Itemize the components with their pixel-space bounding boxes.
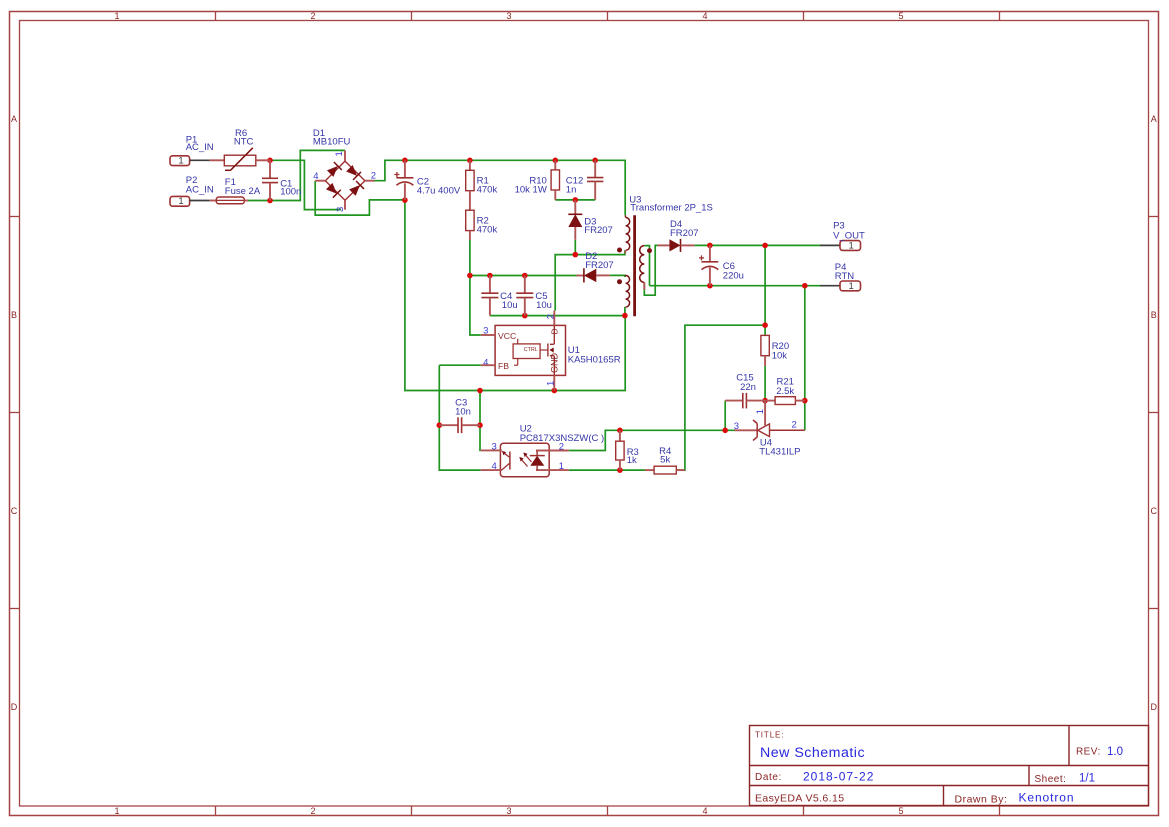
resistor R1: [469, 160, 471, 170]
shunt regulator U4 TL431: [735, 401, 805, 441]
svg-text:220u: 220u: [723, 270, 744, 281]
svg-text:1: 1: [849, 241, 854, 252]
svg-text:Date:: Date:: [755, 772, 782, 783]
wire D3 anode stub: [574, 240, 576, 255]
wire secondary top to RTN: [644, 246, 649, 286]
junction: [437, 422, 443, 428]
connector P1: [170, 156, 190, 166]
wire C4/C5 bottoms to primary-2 bottom: [490, 315, 625, 317]
svg-text:5: 5: [898, 806, 903, 816]
wire D3/primary-1 bottom to U1 drain: [555, 250, 625, 310]
svg-text:10k 1W: 10k 1W: [515, 185, 547, 196]
optocoupler U2 PC817: [481, 443, 569, 476]
svg-text:4: 4: [313, 171, 318, 182]
junction: [573, 252, 579, 258]
svg-text:A: A: [11, 114, 17, 124]
svg-text:1.0: 1.0: [1107, 746, 1123, 758]
svg-text:1: 1: [559, 461, 564, 472]
svg-text:TL431ILP: TL431ILP: [759, 447, 800, 458]
svg-text:1: 1: [178, 196, 183, 207]
svg-text:Drawn By:: Drawn By:: [955, 794, 1008, 806]
svg-text:1n: 1n: [566, 185, 577, 196]
svg-text:VCC: VCC: [498, 331, 516, 341]
bridge rectifier D1: [315, 150, 374, 209]
wire HV+ rail: bridge pin2, C2+, R1, R10, C12, transformer pin: [375, 160, 626, 215]
diode D3: [574, 200, 576, 214]
svg-text:FR207: FR207: [670, 228, 699, 239]
svg-text:4: 4: [702, 806, 707, 816]
wire C15 left down to U4 anode line: [724, 401, 726, 431]
svg-text:4.7u 400V: 4.7u 400V: [417, 185, 461, 196]
svg-text:D: D: [11, 702, 18, 712]
svg-text:1: 1: [755, 409, 766, 414]
junction: [467, 273, 473, 279]
svg-text:10k: 10k: [772, 350, 788, 361]
junction: [402, 158, 408, 164]
wire U2 pin2 to R3 top and U4 anode: [569, 430, 735, 450]
svg-text:FR207: FR207: [585, 260, 614, 271]
junction: [762, 398, 768, 404]
svg-text:2: 2: [310, 11, 315, 21]
svg-text:10u: 10u: [536, 300, 552, 311]
svg-text:4: 4: [702, 11, 707, 21]
wire R20 bottom to REF node: [764, 366, 766, 401]
svg-text:1: 1: [114, 806, 119, 816]
U3 polarity dot winding2: [617, 279, 622, 284]
wire snubber line R2/C4/C5 to D2: [470, 275, 577, 277]
svg-text:D: D: [1150, 702, 1157, 712]
wire RTN rail: [650, 285, 821, 287]
junction: [617, 428, 623, 434]
IC U1 KA5H0165R: [495, 325, 565, 375]
junction: [592, 158, 598, 164]
diode D2: [577, 275, 584, 277]
svg-text:2: 2: [792, 420, 797, 431]
svg-text:22n: 22n: [740, 382, 756, 393]
junction: [802, 398, 808, 404]
wire D2 anode to primary-2 top: [610, 275, 625, 277]
wire C3 right to U2 pin3: [479, 391, 482, 451]
wire U1 FB horizontal: [439, 364, 481, 366]
svg-text:TITLE:: TITLE:: [755, 731, 784, 740]
wire AC line 1 to bridge pin3: [270, 160, 341, 209]
svg-text:A: A: [1151, 114, 1157, 124]
wire R10 bottom to C12 bottom: [555, 199, 595, 201]
wire FB to C3 left and U2 pin4: [439, 365, 480, 470]
svg-text:3: 3: [506, 11, 511, 21]
wire AC line 2 to bridge pin1: [248, 150, 345, 200]
svg-text:1: 1: [114, 11, 119, 21]
wire V_OUT branch down to R20: [764, 245, 766, 325]
svg-text:GND: GND: [550, 353, 560, 374]
junction: [402, 197, 408, 203]
svg-text:MB10FU: MB10FU: [313, 137, 351, 148]
junction: [573, 197, 579, 203]
svg-text:1k: 1k: [627, 455, 637, 466]
svg-text:3: 3: [734, 421, 739, 432]
junction: [267, 198, 273, 204]
resistor R4: [645, 469, 654, 471]
U1 pin 2 (drain): [481, 334, 495, 336]
svg-text:1: 1: [334, 151, 345, 156]
svg-text:1/1: 1/1: [1079, 773, 1095, 785]
svg-text:3: 3: [506, 806, 511, 816]
capacitor C5: [524, 276, 526, 294]
svg-text:C: C: [1150, 506, 1157, 516]
resistor R2: [466, 210, 474, 230]
resistor R3: [619, 430, 621, 441]
resistor R20: [761, 335, 769, 355]
svg-text:NTC: NTC: [234, 137, 254, 148]
U3 polarity dot secondary: [647, 248, 652, 253]
U3 polarity dot winding1: [617, 248, 622, 253]
electrolytic capacitor C6: [699, 257, 704, 259]
connector P2: [170, 196, 190, 206]
junction: [722, 428, 728, 434]
transformer U3: [625, 215, 644, 316]
svg-text:Transformer 2P_1S: Transformer 2P_1S: [630, 203, 713, 214]
svg-text:Kenotron: Kenotron: [1019, 791, 1075, 805]
svg-text:Fuse 2A: Fuse 2A: [225, 186, 261, 197]
svg-text:KA5H0165R: KA5H0165R: [568, 354, 621, 365]
junction: [707, 283, 713, 289]
svg-text:10u: 10u: [502, 300, 518, 311]
wire bridge pin4 to C2 negative: [315, 181, 405, 215]
junction: [622, 313, 628, 319]
junction: [477, 388, 483, 394]
svg-text:10n: 10n: [455, 407, 471, 418]
svg-text:RTN: RTN: [835, 271, 854, 282]
connector P3: [820, 244, 840, 246]
svg-text:B: B: [11, 310, 17, 320]
junction: [762, 322, 768, 328]
diode D4: [658, 244, 670, 246]
wire U2 pin1 to R3 bottom and R4: [569, 469, 645, 471]
svg-text:V_OUT: V_OUT: [833, 230, 865, 241]
wire R20 top stub: [764, 325, 766, 335]
svg-text:Sheet:: Sheet:: [1035, 774, 1067, 785]
svg-text:B: B: [1151, 310, 1157, 320]
svg-text:1: 1: [545, 381, 556, 386]
junction: [762, 243, 768, 249]
svg-text:3: 3: [335, 207, 346, 212]
svg-text:New Schematic: New Schematic: [760, 745, 865, 761]
thermistor R6: [210, 159, 225, 161]
wire V_OUT rail: [695, 244, 820, 246]
capacitor C4: [489, 276, 491, 294]
svg-text:CTRL: CTRL: [524, 347, 538, 353]
svg-text:470k: 470k: [477, 225, 498, 236]
svg-text:PC817X3NSZW(C ): PC817X3NSZW(C ): [520, 433, 604, 444]
connector P4: [820, 285, 840, 287]
junction: [617, 467, 623, 473]
capacitor C12: [594, 160, 596, 177]
svg-text:4: 4: [483, 358, 488, 369]
svg-text:2.5k: 2.5k: [776, 386, 794, 397]
svg-text:FR207: FR207: [584, 225, 613, 236]
svg-text:EasyEDA V5.6.15: EasyEDA V5.6.15: [755, 793, 844, 805]
fuse F1: [210, 200, 217, 202]
svg-text:470k: 470k: [477, 185, 498, 196]
svg-text:5k: 5k: [660, 454, 670, 465]
junction: [487, 273, 493, 279]
svg-text:100n: 100n: [280, 186, 301, 197]
wire primary-2 bottom stub: [624, 307, 626, 316]
junction: [553, 158, 559, 164]
svg-text:2: 2: [371, 170, 376, 181]
wire R4 right up to V_OUT branch: [676, 325, 765, 470]
U1 pin 1 (source/GND): [553, 375, 555, 390]
resistor R21: [765, 400, 775, 402]
svg-text:4: 4: [492, 461, 497, 472]
junction: [522, 273, 528, 279]
capacitor C15: [725, 400, 743, 402]
wire secondary bottom to D4 anode: [644, 245, 657, 295]
svg-text:2: 2: [310, 806, 315, 816]
svg-text:REV:: REV:: [1076, 747, 1101, 758]
svg-text:1: 1: [178, 156, 183, 167]
svg-text:D: D: [550, 328, 560, 334]
svg-text:5: 5: [898, 11, 903, 21]
svg-text:2018-07-22: 2018-07-22: [803, 770, 874, 784]
wire primary ground rail: [405, 200, 625, 390]
wire R2 bottom to U1 VCC: [470, 240, 481, 336]
junction: [707, 243, 713, 249]
junction: [267, 158, 273, 164]
capacitor C1: [269, 160, 271, 178]
wire RTN down to R21 right and U4 cathode: [804, 286, 806, 431]
svg-text:AC_IN: AC_IN: [186, 142, 214, 153]
junction: [477, 422, 483, 428]
svg-text:1: 1: [849, 281, 854, 292]
svg-text:3: 3: [492, 441, 497, 452]
svg-text:C: C: [11, 506, 18, 516]
junction: [522, 313, 528, 319]
junction: [467, 158, 473, 164]
junction: [552, 388, 558, 394]
svg-text:AC_IN: AC_IN: [186, 185, 214, 196]
capacitor C3: [439, 424, 458, 426]
resistor R10: [554, 160, 556, 170]
svg-text:2: 2: [545, 314, 556, 319]
junction: [802, 283, 808, 289]
svg-text:FB: FB: [498, 361, 509, 371]
electrolytic capacitor C2: [394, 174, 399, 176]
